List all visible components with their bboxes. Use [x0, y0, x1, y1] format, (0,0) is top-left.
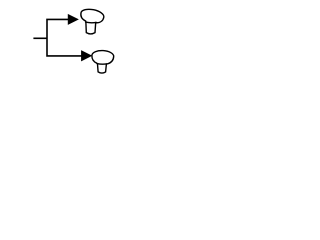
bulb node top: [80, 8, 105, 34]
bulb bottom flange: [97, 63, 107, 66]
bulb top glass dome: [80, 8, 105, 25]
arrowhead top: [68, 14, 78, 24]
bulb top flange: [86, 21, 97, 24]
wire main ortho branch (vertical + two horizontals): [47, 19, 82, 56]
bulb node bottom: [92, 50, 114, 73]
bulb bottom glass dome: [92, 50, 114, 64]
wire stub left input: [33, 37, 47, 39]
bulb bottom base cup: [98, 64, 107, 73]
bulb top base cup: [86, 22, 96, 34]
arrowhead bottom: [81, 51, 91, 61]
